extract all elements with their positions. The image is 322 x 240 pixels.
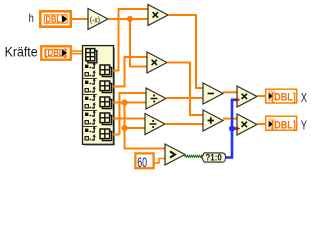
- wire divide1 output to subtract lower input: [166, 97, 203, 99]
- svg-text:60: 60: [137, 155, 147, 170]
- svg-text:?1:0: ?1:0: [205, 153, 222, 163]
- Index Array row divider lines: [83, 79, 97, 127]
- Index Array row 3: [85, 94, 112, 109]
- control Kräfte [DBL] array terminal: [41, 46, 70, 59]
- negate (-x) node: [88, 9, 108, 30]
- junction dot blue: [229, 126, 235, 132]
- junction dot on negate output: [127, 16, 133, 22]
- indicator Y [DBL] terminal: [266, 116, 297, 131]
- svg-text:h: h: [29, 11, 34, 25]
- indicator X [DBL] terminal: [266, 89, 297, 103]
- junction dot divide2 branch: [121, 125, 127, 131]
- coercion dot multiplyY: [236, 126, 240, 130]
- wire multiplyY output to Y indicator: [257, 123, 265, 125]
- svg-text:[DBL]: [DBL]: [271, 119, 296, 131]
- wire index out3 to divide1 lower input: [113, 102, 146, 104]
- wire h control to negate: [71, 18, 88, 20]
- wire 60 to greater-than lower input: [154, 159, 165, 164]
- svg-text:DBL: DBL: [46, 14, 62, 25]
- Index Array node body: [83, 46, 115, 146]
- svg-text:[DBL]: [DBL]: [271, 91, 296, 103]
- integer wire ?1:0 up to multiply X and Y lower inputs (blue): [226, 100, 237, 158]
- wire divide2 output to add lower input: [165, 123, 203, 125]
- wire negate output to multiply1 lower input: [108, 18, 148, 20]
- Index Array 2D array input icon: [86, 49, 97, 63]
- wire index out4 to divide2 upper input: [113, 118, 145, 120]
- Index Array row 4: [85, 110, 112, 125]
- boolean wire greater-than to ?1:0 (dashed green): [185, 155, 203, 157]
- divide D1 node: [146, 88, 166, 109]
- junction dot out3 branch: [121, 99, 127, 105]
- Index Array row 2: [85, 78, 112, 93]
- multiply M2 node: [147, 52, 167, 73]
- array wire Kräfte to Index Array (double line): [71, 51, 82, 54]
- wire index out2 up to multiply2 upper input: [113, 57, 147, 87]
- multiply M1 node: [148, 5, 168, 26]
- wire index out5 up to divide1 upper input: [113, 93, 146, 135]
- svg-text:X: X: [301, 91, 308, 105]
- wire multiply1 output to subtract upper input: [168, 15, 203, 88]
- subtract node: [203, 83, 223, 104]
- add node: [203, 110, 223, 131]
- svg-text:(-x): (-x): [90, 16, 101, 25]
- wire multiplyX output to X indicator: [257, 95, 265, 97]
- wire branch from negate output down to multiply2 lower input: [130, 19, 147, 67]
- Index Array row 5: [85, 126, 112, 141]
- coercion dot multiplyX: [236, 98, 240, 102]
- divide D2 node: [145, 114, 165, 135]
- svg-text:Y: Y: [301, 118, 308, 132]
- wire out3 branch down to divide2 lower input and greater-than input: [125, 103, 166, 149]
- svg-text:Kräfte: Kräfte: [5, 45, 38, 60]
- greater-than node: [165, 144, 185, 165]
- wire multiply2 output to add upper input: [167, 63, 203, 116]
- wire index out1 up to multiply1 upper input: [113, 9, 148, 71]
- wire subtract output to multiplyX upper input: [223, 91, 237, 93]
- multiply X node: [237, 86, 257, 107]
- wire add output to multiplyY upper input: [223, 118, 237, 120]
- Boolean To (0,1) node ?1:0: [202, 153, 226, 163]
- control h DBL terminal: [40, 11, 70, 26]
- numeric constant 60: [135, 153, 153, 170]
- Index Array row 1 index terminals and element icon: [85, 62, 112, 77]
- multiply Y node: [237, 114, 257, 135]
